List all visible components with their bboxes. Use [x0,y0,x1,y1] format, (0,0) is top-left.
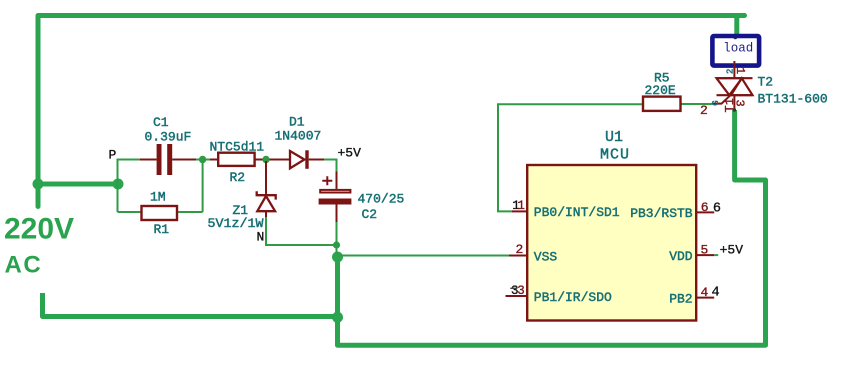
svg-text:6: 6 [701,200,709,215]
svg-text:NTC5d11: NTC5d11 [210,140,265,155]
pin PB0/INT/SD1 [512,199,620,220]
node junction dot mid VSS [332,252,343,263]
svg-text:D1: D1 [289,115,305,130]
resistor R1 [142,206,178,220]
wire: D1 to +5V corner, down to C2 [324,160,337,172]
wire: P node vertical and to R1 [118,159,142,213]
svg-text:6: 6 [713,201,721,216]
svg-text:3: 3 [517,284,525,298]
node junction dot bottom rail [332,312,343,323]
svg-text:R1: R1 [154,222,170,237]
svg-text:BT131-600: BT131-600 [758,92,828,107]
svg-text:PB2: PB2 [669,291,692,306]
node small dot N/C2 [333,241,340,248]
svg-text:G: G [711,100,721,105]
capacitor C2 [319,172,352,223]
wire: thick top rail + left rail [38,16,745,207]
svg-text:U1: U1 [605,129,623,146]
wire: R5 right to gate [681,103,712,105]
wire: N line from Z1 [266,217,337,245]
svg-text:4: 4 [701,285,709,300]
wire: R1 right riser [177,160,203,213]
svg-text:2: 2 [516,242,524,257]
wire: C2 bottom to N junction [336,222,338,255]
svg-text:PB0/INT/SD1: PB0/INT/SD1 [534,205,620,220]
svg-text:1: 1 [517,199,525,213]
svg-text:5V1z/1W: 5V1z/1W [208,216,264,231]
svg-text:1M: 1M [150,190,166,205]
triac T2 [712,61,753,112]
wire: thick left junction spur [38,182,118,187]
node junction dot R2/D1/Z1 [262,156,269,163]
node junction dot P spur [113,179,124,190]
load box [712,36,759,66]
svg-text:220E: 220E [645,83,676,98]
wire: VDD +5V stub [714,254,718,256]
svg-text:5: 5 [701,243,709,258]
wire: R5 left to PB0 [498,104,643,211]
svg-text:MCU: MCU [600,147,630,164]
pin PB1/IR/SDO [506,284,613,305]
pin PB2 [669,285,719,306]
svg-text:+5V: +5V [720,243,744,258]
svg-text:220V: 220V [4,213,74,246]
resistor R5 [643,97,681,111]
svg-text:AC: AC [5,252,43,279]
svg-text:2: 2 [700,103,708,118]
node junction dot C1/R1 [199,156,206,163]
capacitor C1 [140,144,196,175]
svg-text:T2: T2 [758,75,774,90]
pin VSS [509,242,557,264]
svg-text:R2: R2 [230,170,246,185]
svg-text:2: 2 [726,69,736,74]
svg-text:VSS: VSS [534,249,558,264]
wire: C1 to R2 green [196,159,210,161]
svg-text:N: N [257,230,265,245]
svg-text:PB3/RSTB: PB3/RSTB [630,206,693,221]
zener Z1 [257,161,276,217]
svg-text:C1: C1 [153,115,169,130]
svg-text:+5V: +5V [338,146,362,161]
wire: VSS wire [338,255,510,257]
svg-text:3: 3 [732,100,746,107]
pin VDD [669,243,743,264]
diode D1 [266,150,324,169]
svg-text:P: P [109,148,117,163]
wire: thick stub from top rail into load [734,16,739,38]
svg-text:VDD: VDD [669,249,693,264]
MCU U1 box [527,165,696,321]
wire: thick neutral run from mid junction to triac [338,110,766,345]
node junction dot left rail [33,179,44,190]
svg-text:0.39uF: 0.39uF [145,130,192,145]
svg-text:PB1/IR/SDO: PB1/IR/SDO [534,290,612,305]
svg-text:4: 4 [712,285,720,300]
svg-text:470/25: 470/25 [358,192,405,207]
resistor R2 NTC [210,153,268,166]
wire: thick lower-left L [43,293,338,317]
pin PB3/RSTB [630,200,721,221]
svg-text:C2: C2 [362,207,378,222]
svg-text:load: load [723,41,753,55]
svg-text:1N4007: 1N4007 [275,129,322,144]
